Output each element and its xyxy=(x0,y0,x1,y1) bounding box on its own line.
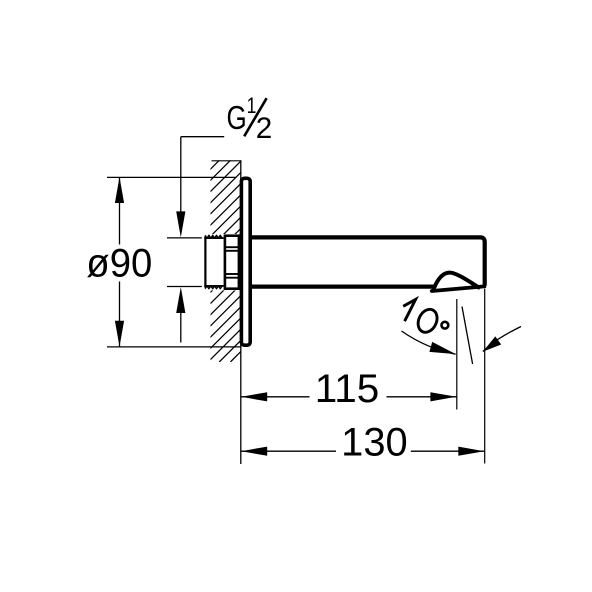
dim line 130 left segment xyxy=(241,450,336,452)
arrow nipple top (down) xyxy=(176,211,185,237)
dim line o90 lower segment xyxy=(119,282,121,347)
dim line 130 right segment xyxy=(411,450,485,452)
arrow nipple bottom (up) xyxy=(176,287,185,313)
arrow o90 up xyxy=(115,177,124,203)
arrow 115 left xyxy=(241,392,267,401)
thread crest bottom xyxy=(205,286,222,289)
fraction slash xyxy=(244,98,266,136)
arrow o90 down xyxy=(115,321,124,347)
tick nipple bottom xyxy=(167,286,202,288)
extension line spout right edge (130) xyxy=(484,289,486,464)
spout top wall and right edge xyxy=(251,237,485,285)
arrow 115 right xyxy=(430,392,456,401)
extension line at spout tip (115) xyxy=(456,299,458,410)
wall top edge xyxy=(212,160,241,162)
extension line flange top xyxy=(107,176,236,178)
arrow 130 left xyxy=(241,447,267,456)
degree symbol xyxy=(442,322,449,329)
nut facet lines xyxy=(226,246,239,248)
svg-text:130: 130 xyxy=(341,420,408,464)
spout outlet lip (angled cut) xyxy=(432,286,485,291)
arrow tail below nipple xyxy=(180,311,182,343)
dim line o90 upper segment xyxy=(119,177,121,244)
wall flange xyxy=(241,178,250,345)
dim line 115 right segment xyxy=(387,396,457,398)
angle arc right segment xyxy=(483,327,521,352)
G1/2 leader horizontal xyxy=(181,136,224,138)
svg-text:2: 2 xyxy=(256,112,272,145)
G1/2 leader vertical xyxy=(180,137,182,213)
angled cut line (10 deg) xyxy=(462,307,473,365)
svg-text:G: G xyxy=(227,100,247,137)
spout outlet hump xyxy=(434,273,479,289)
tick nipple top xyxy=(167,237,202,239)
angle arrow left xyxy=(429,342,455,354)
spout bottom wall xyxy=(251,285,435,289)
arrow 130 right xyxy=(458,447,484,456)
thread crest top xyxy=(205,235,222,238)
wall face line / extension line xyxy=(240,160,242,464)
dim line 115 left segment xyxy=(241,396,310,398)
nut xyxy=(225,236,239,289)
extension line flange bottom xyxy=(107,346,241,348)
svg-text:115: 115 xyxy=(315,367,380,411)
nipple/nut white backing xyxy=(203,234,242,290)
label 10 deg xyxy=(403,299,415,321)
svg-text:ø90: ø90 xyxy=(86,242,152,286)
angle arc left segment xyxy=(402,331,456,354)
angle arrow right xyxy=(483,336,501,351)
threaded nipple (G1/2) xyxy=(204,236,206,287)
